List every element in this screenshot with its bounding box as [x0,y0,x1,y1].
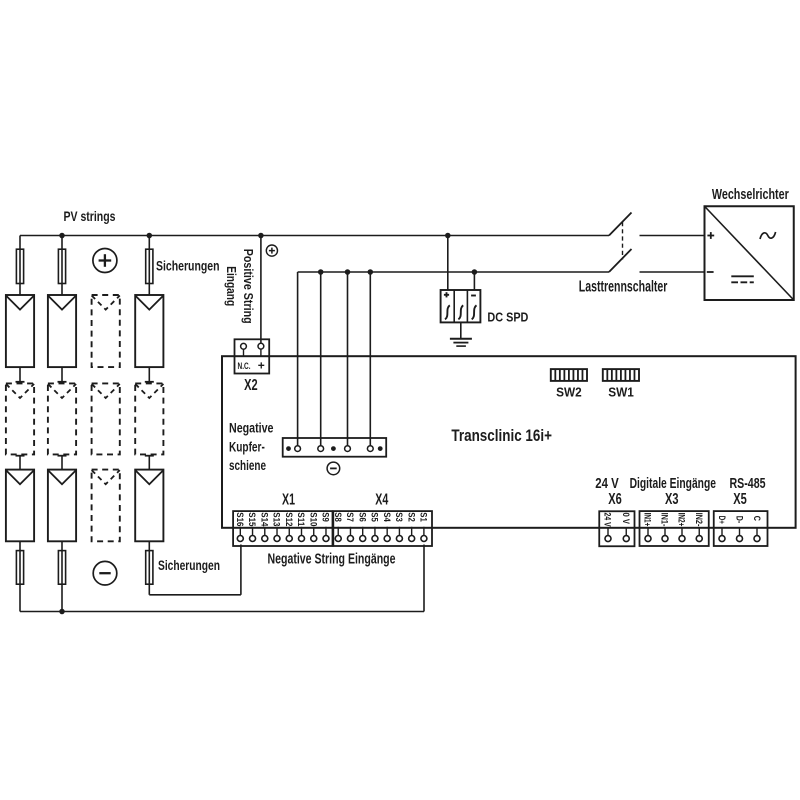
svg-text:Negative String Eingänge: Negative String Eingänge [268,550,396,567]
pin X6 24 V [602,513,613,542]
label: 24 V (header) [595,475,619,492]
wire: negative bus to disconnector [298,271,609,273]
svg-text:S15: S15 [246,512,257,527]
svg-text:S12: S12 [283,512,294,526]
pin S3 [393,512,404,541]
pin S1 [418,512,429,541]
symbol: minus circle under busbar [327,462,340,475]
svg-text:X1: X1 [282,491,295,508]
wire: positive tap to X2 [260,236,262,344]
PV module string2 row3 [48,470,76,542]
pin S16 [234,512,245,541]
label: Negative Kupferschiene [229,420,274,474]
pin S6 [356,512,367,541]
svg-text:Transclinic 16i+: Transclinic 16i+ [451,426,552,445]
PV module string2 row1 [48,295,76,367]
label: SW2 [556,385,582,399]
symbol: plus polarity circle [93,249,117,273]
node: junction top bus / DC SPD [445,233,451,239]
pin S13 [271,512,282,541]
svg-text:Eingang: Eingang [224,266,239,306]
pin: busbar terminal 4 [367,446,373,452]
node: junction bottom bus / string 2 [59,609,65,615]
label: X5 [733,491,747,508]
pin X6 0 V [620,513,631,542]
enclosure: Transclinic 16i+ box [222,356,796,528]
wire: string 1 row1-row2 stub [16,367,25,383]
svg-text:schiene: schiene [229,457,266,473]
node: junction negative bus / drop 3 [345,269,351,275]
terminal block X3 body [640,511,709,546]
svg-text:Kupfer-: Kupfer- [229,438,265,454]
svg-text:S6: S6 [356,512,367,522]
symbol: minus polarity circle [93,561,117,585]
PV module string3 row1 (hidden, dashed) [92,295,120,367]
pin X3 IN1- [659,513,670,542]
label: Eingang (rotated) [224,266,239,306]
label: + (inverter) [707,232,714,239]
label: DC SPD [487,311,528,325]
pin S4 [381,512,392,541]
label: X4 [375,491,388,508]
svg-text:Negative: Negative [229,420,274,436]
wire: string 2 row1-row2 stub [58,367,67,383]
svg-text:Digitale Eingänge: Digitale Eingänge [630,475,716,492]
label: Digitale Eingaenge [630,475,716,492]
wire: string 1 to negative bus [19,584,21,611]
PV module string1 row2 (hidden, dashed) [6,383,34,454]
node: junction negative bus / drop 4 [368,269,374,275]
pin X5 C [752,516,762,542]
inverter: Wechselrichter box [705,206,794,300]
svg-text:X4: X4 [375,491,388,508]
label: + (SPD) [444,292,449,297]
surge protector DC SPD [441,290,481,322]
pin S7 [344,512,355,541]
label: X1 [282,491,295,508]
wire: string 1 bottom feed [19,541,21,584]
wire: string 1 top feed [19,236,21,296]
svg-text:SW1: SW1 [608,385,634,399]
svg-text:D-: D- [734,516,744,524]
switch: Lasttrennschalter pole + blade [609,213,632,236]
ground: earth symbol [450,339,472,346]
svg-text:24 V: 24 V [595,475,619,492]
terminal block X1 body [233,511,332,546]
label: - (SPD) [471,295,476,297]
DIP switch SW1 [603,369,639,381]
PV module string2 row2 (hidden, dashed) [48,383,76,454]
svg-text:S4: S4 [381,512,392,522]
DIP switch SW2 [551,369,587,381]
label: Wechselrichter [712,186,789,203]
symbol: DC lines [731,276,754,282]
pin: busbar terminal 3 [345,446,351,452]
node: junction negative bus / drop 2 [318,269,324,275]
fuse: Sicherung bottom string 1 [16,551,23,585]
pin X5 D+ [717,516,727,542]
svg-text:S13: S13 [271,512,282,526]
label: SW1 [608,385,634,399]
switch: Lasttrennschalter pole - blade [609,249,632,272]
svg-text:X5: X5 [733,491,747,508]
PV module string3 row3 (hidden, dashed) [92,470,120,542]
wire: string 2 to negative bus [61,584,63,611]
label: Positive String (rotated) [241,249,256,324]
svg-text:S10: S10 [307,512,318,526]
node: junction top bus / string 2 [59,233,65,239]
wire: bottom negative bus to S1 [20,545,424,612]
svg-text:X3: X3 [665,491,679,508]
wire: DC SPD negative feed [473,272,475,290]
wire: string 4 fuse to S16 [149,545,241,595]
svg-text:RS-485: RS-485 [730,475,766,492]
symbol: AC sine [760,232,776,239]
pin X5 D- [734,516,744,542]
svg-text:IN1-: IN1- [659,513,670,527]
svg-text:+: + [258,359,265,373]
pin S15 [246,512,257,541]
svg-text:IN1+: IN1+ [642,513,653,527]
wire: string 4 bottom feed [148,541,150,584]
label: PV strings [64,208,116,224]
wire: string 2 bottom feed [61,541,63,584]
terminal block X2 [235,339,270,373]
node: busbar bolt left [286,446,291,451]
PV module string1 row3 [6,470,34,542]
pin S5 [369,512,380,541]
pin: busbar terminal 2 [318,446,324,452]
svg-text:X2: X2 [244,377,258,394]
terminal block X4 body [333,511,432,546]
pin S12 [283,512,294,541]
svg-text:DC SPD: DC SPD [487,311,528,325]
switch: mechanical link (dashed) [622,222,624,260]
svg-text:Sicherungen: Sicherungen [158,557,220,573]
pin: busbar terminal 1 [295,446,301,452]
symbol: small plus circle (positive string input) [266,245,277,256]
wire: string 4 row1-row2 stub [145,367,154,383]
svg-text:N.C.: N.C. [238,361,251,372]
PV module string4 row2 (hidden, dashed) [135,383,163,454]
svg-text:IN2+: IN2+ [676,513,687,527]
svg-text:X6: X6 [608,491,622,508]
label: - (inverter) [707,271,714,273]
svg-text:Wechselrichter: Wechselrichter [712,186,789,203]
svg-text:S3: S3 [393,512,404,522]
svg-text:IN2-: IN2- [693,513,704,527]
node: busbar bolt middle [331,446,336,451]
wire: DC SPD positive feed [447,236,449,291]
svg-text:0 V: 0 V [620,513,631,525]
node: junction top bus / X2 drop [258,233,264,239]
label: Negative String Eingaenge [268,550,396,567]
wire: string 2 top feed [61,236,63,296]
wire: string 4 row2-row3 stub [145,456,154,470]
label: + (X2) [258,359,265,373]
node: junction top bus / string 4 [147,233,153,239]
label: Transclinic 16i+ [451,426,552,445]
pin S10 [307,512,318,541]
pin X3 IN2+ [676,513,687,542]
fuse: Sicherung bottom string 4 [146,551,153,585]
svg-text:S8: S8 [332,512,343,522]
label: Lasttrennschalter [579,278,668,295]
wire: disconnector to inverter + [640,235,705,237]
label: X3 [665,491,679,508]
svg-text:Sicherungen: Sicherungen [156,258,220,274]
terminal block X6 body [599,511,634,546]
wire: SPD to earth [460,322,462,338]
label: X2 [244,377,258,394]
pin S11 [295,512,306,541]
wire: string 4 top feed [148,236,150,296]
wire: busbar drop 1 [297,272,299,446]
wire: busbar drop 2 [320,272,322,446]
svg-text:S1: S1 [418,512,429,522]
label: Sicherungen (bottom) [158,557,220,573]
label: RS-485 [730,475,766,492]
svg-text:S9: S9 [320,512,331,522]
pin S9 [320,512,331,541]
wire: busbar drop 3 [347,272,349,446]
pin X2 + [258,343,264,356]
svg-text:S5: S5 [369,512,380,522]
label: X6 [608,491,622,508]
svg-text:S16: S16 [234,512,245,526]
busbar: Negative Kupferschiene bar [283,438,387,457]
fuse: Sicherung top string 4 [146,249,153,283]
fuse: Sicherung top string 1 [16,249,23,283]
pin X2 N.C. [241,343,247,356]
label: Sicherungen (top) [156,258,220,274]
svg-text:D+: D+ [717,516,727,524]
svg-text:24 V: 24 V [602,513,613,528]
svg-text:S2: S2 [405,512,416,522]
pin X3 IN1+ [642,513,653,542]
wire: string 2 row2-row3 stub [58,456,67,470]
label: N.C. [238,361,251,372]
svg-text:S14: S14 [258,512,269,527]
terminal block X5 body [714,511,768,546]
svg-text:Lasttrennschalter: Lasttrennschalter [579,278,668,295]
PV module string1 row1 [6,295,34,367]
svg-text:S11: S11 [295,512,306,527]
PV module string3 row2 (hidden, dashed) [92,383,120,454]
fuse: Sicherung bottom string 2 [58,551,65,585]
wire: string 1 row2-row3 stub [16,456,25,470]
wire: positive top bus [20,235,609,237]
svg-text:PV strings: PV strings [64,208,116,224]
svg-text:S7: S7 [344,512,355,522]
pin S2 [405,512,416,541]
wire: busbar drop 4 [369,272,371,446]
node: junction negative bus / DC SPD [472,269,478,275]
PV module string4 row1 [135,295,163,367]
node: busbar bolt right [378,446,383,451]
wire: disconnector to inverter - [640,271,705,273]
svg-text:Positive String: Positive String [241,249,256,324]
fuse: Sicherung top string 2 [58,249,65,283]
pin S8 [332,512,343,541]
pin S14 [258,512,269,541]
pin X3 IN2- [693,513,704,542]
svg-text:SW2: SW2 [556,385,582,399]
PV module string4 row3 [135,470,163,542]
svg-text:C: C [752,516,762,522]
